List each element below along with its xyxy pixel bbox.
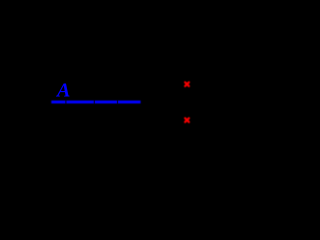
wire (blue dashed segment line): [51, 101, 140, 104]
wire dash gaps: [65, 100, 118, 104]
node X2 (red cross marker): [185, 118, 189, 122]
svg-text:A: A: [55, 80, 70, 102]
node X1 (red cross marker): [185, 82, 189, 86]
